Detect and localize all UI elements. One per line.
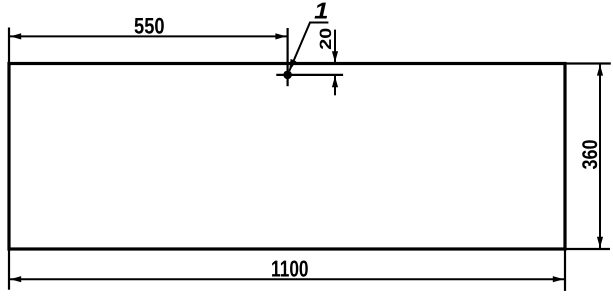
extension line through point (550 dim)	[287, 28, 289, 86]
dimension line 1100	[9, 278, 565, 280]
dimension line 550	[9, 35, 288, 37]
arrow 360 top (points up)	[597, 65, 603, 76]
extension line bottom right (360 dim)	[565, 248, 610, 250]
leader arrowhead	[289, 59, 296, 71]
extension line bottom left (1100 dim)	[8, 249, 10, 290]
dimension line 20 upper segment	[334, 30, 336, 63]
extension line left (550 dim)	[8, 28, 10, 64]
arrow 20 top (points down)	[332, 51, 338, 62]
svg-text:1100: 1100	[271, 256, 309, 282]
extension line through point horizontal (20 dim)	[276, 74, 343, 76]
arrow 1100 left	[10, 276, 21, 282]
point 1 marker dot	[283, 71, 292, 80]
arrow 1100 right	[553, 276, 564, 282]
arrow 20 bottom (points up)	[332, 76, 338, 87]
arrow 550 left	[10, 33, 21, 39]
arrow 360 bottom (points down)	[597, 237, 603, 248]
svg-text:550: 550	[134, 13, 165, 38]
extension line bottom right (1100 dim)	[564, 249, 566, 291]
dimension line 20 lower segment	[334, 76, 336, 95]
dimension line 360	[599, 64, 601, 248]
svg-text:360: 360	[579, 140, 602, 170]
leader line to label 1	[289, 23, 328, 71]
svg-text:1: 1	[314, 0, 328, 23]
extension line top right (360 dim)	[565, 62, 611, 64]
plate outline (rectangle 1100x360)	[9, 64, 565, 250]
svg-text:20: 20	[317, 28, 335, 50]
arrow 550 right	[275, 33, 286, 39]
